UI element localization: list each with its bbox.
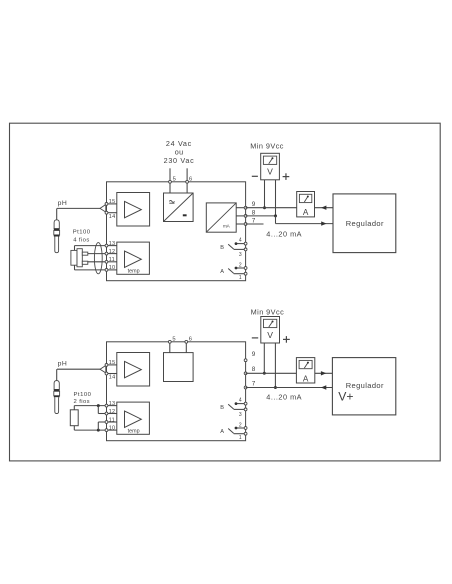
svg-text:temp: temp [128, 429, 140, 435]
svg-text:14: 14 [109, 375, 116, 381]
svg-text:V: V [267, 330, 273, 340]
svg-text:5: 5 [173, 176, 176, 182]
svg-text:13: 13 [109, 401, 116, 407]
svg-text:4...20 mA: 4...20 mA [266, 229, 302, 238]
svg-text:12: 12 [109, 249, 116, 255]
svg-text:A: A [303, 208, 309, 217]
svg-text:Min 9Vcc: Min 9Vcc [251, 307, 285, 316]
svg-text:11: 11 [109, 417, 115, 423]
svg-text:6: 6 [189, 176, 192, 182]
svg-text:pH: pH [58, 200, 68, 207]
svg-text:9: 9 [252, 201, 256, 208]
svg-text:Min 9Vcc: Min 9Vcc [250, 142, 284, 151]
svg-text:1: 1 [239, 435, 242, 441]
svg-text:12: 12 [109, 409, 116, 415]
svg-text:temp: temp [128, 269, 140, 275]
svg-text:7: 7 [252, 380, 256, 387]
svg-text:7: 7 [252, 217, 256, 224]
svg-text:9: 9 [252, 351, 256, 358]
svg-text:A: A [303, 375, 309, 384]
svg-text:3: 3 [239, 252, 242, 258]
svg-text:A: A [220, 429, 224, 435]
svg-text:11: 11 [109, 257, 115, 263]
svg-text:B: B [220, 405, 224, 411]
svg-text:14: 14 [109, 214, 116, 220]
svg-text:V+: V+ [338, 390, 353, 404]
svg-text:13: 13 [109, 241, 116, 247]
svg-text:B: B [220, 245, 224, 251]
svg-text:10: 10 [109, 425, 116, 431]
svg-text:Pt100: Pt100 [74, 392, 92, 398]
svg-text:A: A [220, 269, 224, 275]
svg-text:pH: pH [58, 361, 68, 368]
svg-text:2: 2 [239, 422, 242, 428]
svg-text:8: 8 [252, 209, 256, 216]
svg-text:2 fios: 2 fios [74, 399, 90, 405]
svg-text:15: 15 [109, 360, 116, 366]
svg-text:15: 15 [109, 199, 116, 205]
svg-text:6: 6 [189, 336, 192, 342]
svg-text:Regulador: Regulador [346, 219, 384, 228]
svg-text:24 Vac: 24 Vac [166, 139, 192, 148]
svg-text:8: 8 [252, 366, 256, 373]
svg-text:1: 1 [239, 275, 242, 281]
svg-text:230 Vac: 230 Vac [164, 156, 195, 165]
svg-text:4: 4 [239, 238, 242, 244]
svg-text:5: 5 [172, 336, 175, 342]
svg-text:mA: mA [223, 223, 231, 228]
svg-text:10: 10 [109, 265, 116, 271]
svg-text:V: V [267, 167, 273, 177]
svg-text:4...20 mA: 4...20 mA [266, 393, 302, 402]
svg-text:4 fios: 4 fios [73, 238, 89, 244]
svg-text:4: 4 [239, 398, 242, 404]
svg-text:Pt100: Pt100 [73, 229, 91, 235]
svg-text:2: 2 [239, 262, 242, 268]
svg-text:3: 3 [239, 412, 242, 418]
